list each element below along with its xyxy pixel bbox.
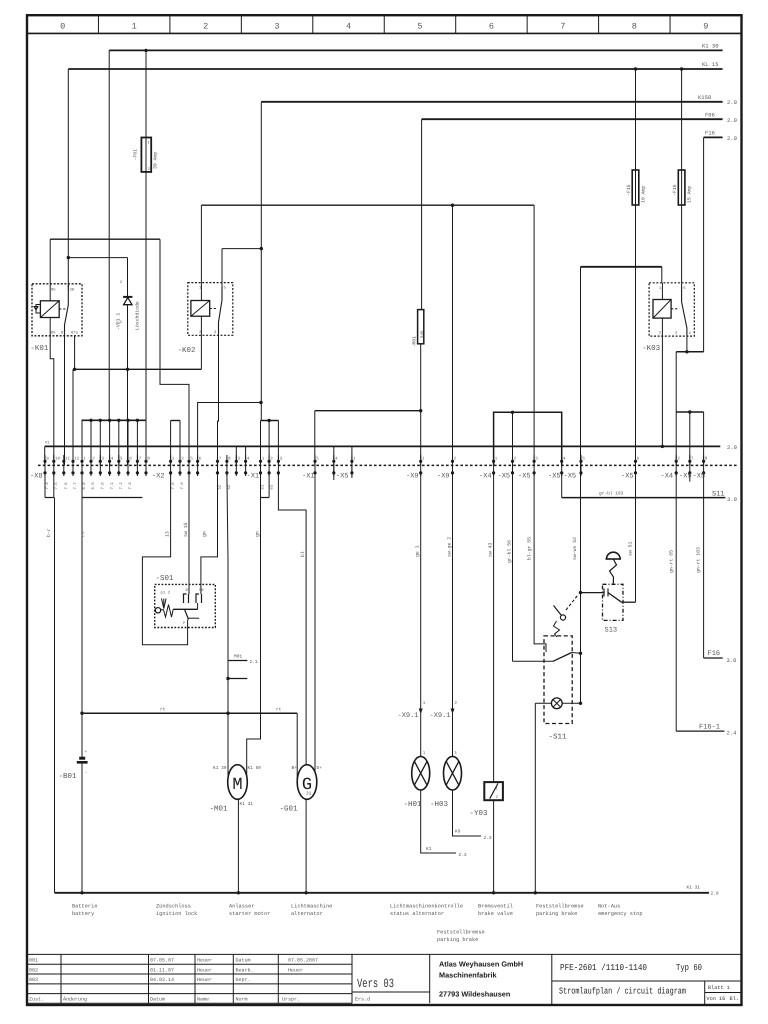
svg-text:52: 52 xyxy=(227,484,232,489)
svg-text:brake valve: brake valve xyxy=(478,911,513,917)
svg-text:-X1: -X1 xyxy=(302,473,315,481)
svg-text:2: 2 xyxy=(270,457,273,462)
svg-text:Maschinenfabrik: Maschinenfabrik xyxy=(439,971,498,980)
svg-text:gn: gn xyxy=(256,531,261,537)
svg-text:001: 001 xyxy=(29,958,38,964)
svg-text:P: P xyxy=(183,621,186,626)
svg-text:Löschdiode: Löschdiode xyxy=(135,301,141,330)
svg-text:-R01: -R01 xyxy=(412,336,418,348)
svg-text:K1 30: K1 30 xyxy=(702,43,719,50)
svg-text:4: 4 xyxy=(247,457,250,462)
svg-text:K0: K0 xyxy=(455,829,461,835)
svg-text:545: 545 xyxy=(420,330,425,338)
svg-text:V1: V1 xyxy=(45,441,50,446)
svg-text:starter motor: starter motor xyxy=(229,911,270,917)
svg-text:2.3: 2.3 xyxy=(459,852,467,858)
svg-text:Urspr.: Urspr. xyxy=(282,997,300,1003)
svg-text:Datum: Datum xyxy=(236,958,251,964)
svg-text:Ers.d: Ers.d xyxy=(355,997,370,1003)
svg-text:-X8: -X8 xyxy=(30,473,43,481)
svg-text:1: 1 xyxy=(262,457,265,462)
svg-text:3.0: 3.0 xyxy=(727,657,737,664)
svg-text:7.4: 7.4 xyxy=(45,482,50,490)
svg-text:Stromlaufplan / circuit diagra: Stromlaufplan / circuit diagram xyxy=(559,987,686,997)
svg-text:6: 6 xyxy=(637,457,640,462)
svg-text:86: 86 xyxy=(51,288,56,293)
svg-text:01.11.07: 01.11.07 xyxy=(150,967,174,973)
svg-text:5: 5 xyxy=(417,22,422,32)
svg-text:ge 1: ge 1 xyxy=(415,545,421,557)
svg-text:F16-1: F16-1 xyxy=(699,724,720,732)
svg-text:52: 52 xyxy=(218,484,223,489)
svg-text:2: 2 xyxy=(677,457,680,462)
svg-text:Bl.: Bl. xyxy=(730,996,739,1002)
svg-text:1: 1 xyxy=(423,701,426,706)
svg-text:Gepr.: Gepr. xyxy=(236,977,251,983)
svg-text:Datum: Datum xyxy=(150,997,165,1003)
svg-text:F06: F06 xyxy=(705,112,715,119)
svg-text:Zust.: Zust. xyxy=(29,997,44,1003)
svg-text:07.05.07: 07.05.07 xyxy=(150,958,174,964)
svg-text:3: 3 xyxy=(280,457,283,462)
svg-text:Heuer: Heuer xyxy=(197,967,212,973)
svg-text:5: 5 xyxy=(316,457,319,462)
svg-text:parking brake: parking brake xyxy=(536,911,577,917)
svg-text:5: 5 xyxy=(683,286,686,291)
svg-text:2.0: 2.0 xyxy=(727,117,737,124)
svg-text:-H01: -H01 xyxy=(404,800,423,809)
svg-text:K1 31: K1 31 xyxy=(687,885,701,891)
svg-text:9: 9 xyxy=(703,22,708,32)
svg-text:-K02: -K02 xyxy=(178,346,196,355)
svg-text:-Y03: -Y03 xyxy=(470,809,489,818)
svg-text:-B01: -B01 xyxy=(59,772,78,781)
svg-text:-S11: -S11 xyxy=(549,733,568,742)
svg-text:2.8: 2.8 xyxy=(711,891,719,897)
svg-text:2: 2 xyxy=(514,457,517,462)
svg-text:7: 7 xyxy=(219,457,222,462)
svg-text:Feststellbremse: Feststellbremse xyxy=(536,904,584,910)
svg-text:Atlas Weyhausen GmbH: Atlas Weyhausen GmbH xyxy=(439,960,523,969)
svg-text:Blatt 1: Blatt 1 xyxy=(708,985,730,991)
svg-text:Lichtmaschinenkontrolle: Lichtmaschinenkontrolle xyxy=(390,904,463,910)
svg-text:8: 8 xyxy=(632,22,637,32)
svg-text:002: 002 xyxy=(29,967,38,973)
svg-text:15: 15 xyxy=(185,588,190,593)
svg-text:-X5: -X5 xyxy=(498,473,511,481)
svg-text:Norm: Norm xyxy=(236,997,248,1003)
svg-text:sw 43: sw 43 xyxy=(488,542,494,557)
svg-text:-X5: -X5 xyxy=(621,473,634,481)
svg-text:gn: gn xyxy=(203,531,208,537)
svg-text:2.0: 2.0 xyxy=(727,99,737,106)
svg-text:7: 7 xyxy=(560,22,565,32)
svg-text:Heuer: Heuer xyxy=(288,967,303,973)
svg-text:battery: battery xyxy=(72,911,94,917)
svg-text:gr-bl 56: gr-bl 56 xyxy=(507,540,513,563)
svg-text:12: 12 xyxy=(74,457,80,462)
svg-text:-X5: -X5 xyxy=(693,473,706,481)
svg-text:3: 3 xyxy=(238,457,241,462)
svg-text:Name: Name xyxy=(197,997,209,1003)
svg-text:Bearb.: Bearb. xyxy=(236,967,254,973)
svg-text:parking brake: parking brake xyxy=(437,937,478,943)
svg-text:1: 1 xyxy=(83,457,86,462)
svg-text:7.9: 7.9 xyxy=(180,482,185,490)
svg-text:M01: M01 xyxy=(234,654,242,660)
svg-text:1: 1 xyxy=(423,751,426,756)
svg-text:31: 31 xyxy=(306,791,312,797)
svg-text:Anlasser: Anlasser xyxy=(229,904,254,910)
svg-text:1: 1 xyxy=(148,141,151,146)
svg-text:-X5: -X5 xyxy=(336,473,349,481)
svg-text:7.0: 7.0 xyxy=(171,482,176,490)
svg-text:2: 2 xyxy=(181,457,184,462)
svg-text:KL 15: KL 15 xyxy=(702,61,719,68)
svg-text:1: 1 xyxy=(659,286,662,291)
svg-text:1: 1 xyxy=(353,457,356,462)
svg-text:e2: e2 xyxy=(269,484,274,489)
svg-text:7.7: 7.7 xyxy=(73,482,78,490)
svg-text:-S01: -S01 xyxy=(156,574,175,583)
svg-text:Batterie: Batterie xyxy=(72,904,97,910)
svg-text:3: 3 xyxy=(214,330,217,335)
svg-text:4: 4 xyxy=(111,457,114,462)
svg-text:003: 003 xyxy=(29,977,38,983)
svg-text:1: 1 xyxy=(422,457,425,462)
svg-text:2.0: 2.0 xyxy=(727,135,737,142)
svg-text:5: 5 xyxy=(120,457,123,462)
svg-text:-X5: -X5 xyxy=(564,473,577,481)
svg-text:5: 5 xyxy=(224,286,227,291)
svg-text:3: 3 xyxy=(535,457,538,462)
svg-text:2.4: 2.4 xyxy=(727,730,738,737)
svg-text:2.1: 2.1 xyxy=(250,659,258,665)
svg-text:Lichtmaschine: Lichtmaschine xyxy=(291,904,332,910)
svg-text:3: 3 xyxy=(102,457,105,462)
svg-text:PFE-2601 /1110-1140: PFE-2601 /1110-1140 xyxy=(560,963,647,973)
svg-text:3.0: 3.0 xyxy=(727,496,737,503)
svg-text:30: 30 xyxy=(70,288,75,293)
svg-text:p1 2: p1 2 xyxy=(161,591,171,596)
svg-text:2: 2 xyxy=(92,457,95,462)
svg-text:-K03: -K03 xyxy=(642,344,661,353)
svg-text:0: 0 xyxy=(60,22,65,32)
svg-text:S13: S13 xyxy=(605,627,618,635)
svg-text:Zündschloss: Zündschloss xyxy=(156,904,191,910)
svg-text:alternator: alternator xyxy=(291,911,323,917)
svg-text:-F15: -F15 xyxy=(626,184,632,196)
svg-text:-X4: -X4 xyxy=(661,473,674,481)
svg-text:50: 50 xyxy=(199,588,204,593)
svg-text:K1 31: K1 31 xyxy=(240,801,254,807)
svg-text:-: - xyxy=(85,771,88,776)
svg-text:gn-rt 65: gn-rt 65 xyxy=(669,550,675,573)
svg-text:rt: rt xyxy=(160,708,166,713)
svg-text:-G01: -G01 xyxy=(280,805,299,814)
svg-text:-F16: -F16 xyxy=(672,184,678,196)
svg-text:-F01: -F01 xyxy=(133,149,139,161)
svg-text:sw 15: sw 15 xyxy=(183,522,189,537)
svg-text:b-r: b-r xyxy=(46,528,52,537)
svg-text:bl-gr 55: bl-gr 55 xyxy=(527,537,533,560)
svg-text:1: 1 xyxy=(455,751,458,756)
svg-text:7.1: 7.1 xyxy=(110,482,115,490)
svg-text:6: 6 xyxy=(199,457,202,462)
svg-text:87a: 87a xyxy=(71,331,79,336)
svg-text:-X9: -X9 xyxy=(406,473,419,481)
svg-text:gn-rt 103: gn-rt 103 xyxy=(696,547,702,573)
svg-text:Bremsventil: Bremsventil xyxy=(478,904,513,910)
svg-text:8: 8 xyxy=(228,457,231,462)
svg-text:-H03: -H03 xyxy=(430,800,449,809)
svg-text:87: 87 xyxy=(61,331,66,336)
svg-text:1: 1 xyxy=(496,787,499,792)
svg-text:K1 30: K1 30 xyxy=(213,765,227,771)
svg-text:-X9: -X9 xyxy=(437,473,450,481)
svg-text:7.0: 7.0 xyxy=(101,482,106,490)
svg-text:ignition lock: ignition lock xyxy=(156,911,197,917)
svg-text:11: 11 xyxy=(65,457,71,462)
svg-text:Heuer: Heuer xyxy=(197,958,212,964)
svg-text:7: 7 xyxy=(139,457,142,462)
svg-text:30 Amp: 30 Amp xyxy=(153,152,159,169)
svg-text:07.05.2007: 07.05.2007 xyxy=(288,958,318,964)
svg-text:85: 85 xyxy=(51,331,56,336)
svg-text:5: 5 xyxy=(190,457,193,462)
svg-text:1: 1 xyxy=(132,22,137,32)
svg-text:B+: B+ xyxy=(292,766,298,771)
svg-text:8: 8 xyxy=(147,457,150,462)
svg-text:7.5: 7.5 xyxy=(54,482,59,490)
svg-text:3: 3 xyxy=(675,331,678,336)
svg-text:-X1: -X1 xyxy=(247,473,260,481)
svg-text:emergency stop: emergency stop xyxy=(598,911,643,917)
svg-text:2.0: 2.0 xyxy=(727,444,737,451)
svg-text:Not-Aus: Not-Aus xyxy=(598,904,620,910)
svg-text:2.3: 2.3 xyxy=(484,835,492,841)
svg-text:-X4: -X4 xyxy=(479,473,492,481)
svg-text:9: 9 xyxy=(46,457,49,462)
svg-text:4: 4 xyxy=(346,22,351,32)
svg-text:rt: rt xyxy=(276,708,282,713)
svg-text:+: + xyxy=(85,750,88,755)
svg-text:6.8: 6.8 xyxy=(82,482,87,490)
svg-text:sw-ge 2: sw-ge 2 xyxy=(447,537,453,557)
svg-text:Typ 60: Typ 60 xyxy=(676,963,702,973)
svg-text:7.2: 7.2 xyxy=(119,482,124,490)
svg-text:6.9: 6.9 xyxy=(91,482,96,490)
svg-text:gr-bl 103: gr-bl 103 xyxy=(599,491,624,497)
svg-text:D+: D+ xyxy=(317,766,323,771)
svg-text:6: 6 xyxy=(129,457,132,462)
svg-text:S11: S11 xyxy=(712,491,725,499)
svg-text:1: 1 xyxy=(495,457,498,462)
svg-text:04.03.14: 04.03.14 xyxy=(150,977,174,983)
svg-text:-X5: -X5 xyxy=(548,473,561,481)
svg-text:sw 51: sw 51 xyxy=(628,541,634,556)
svg-text:10: 10 xyxy=(55,457,61,462)
svg-text:15 Amp: 15 Amp xyxy=(687,186,693,203)
svg-text:-X5: -X5 xyxy=(679,473,692,481)
svg-text:rt: rt xyxy=(80,531,86,537)
svg-text:Änderung: Änderung xyxy=(63,997,87,1003)
svg-text:-X2: -X2 xyxy=(152,473,165,481)
svg-text:e1: e1 xyxy=(261,484,266,489)
svg-text:-K01: -K01 xyxy=(30,344,49,353)
svg-text:4: 4 xyxy=(563,457,566,462)
svg-text:sw-ws 52: sw-ws 52 xyxy=(572,537,578,560)
svg-text:F16: F16 xyxy=(708,650,721,658)
svg-text:6: 6 xyxy=(489,22,494,32)
svg-text:Vers 03: Vers 03 xyxy=(357,977,394,991)
svg-text:3: 3 xyxy=(275,22,280,32)
svg-text:1: 1 xyxy=(172,457,175,462)
svg-text:-X5: -X5 xyxy=(518,473,531,481)
svg-text:7.3: 7.3 xyxy=(128,482,133,490)
svg-text:10 Amp: 10 Amp xyxy=(641,186,647,203)
svg-text:K150: K150 xyxy=(698,94,711,101)
svg-text:-VD1 1: -VD1 1 xyxy=(116,313,122,330)
svg-text:K1: K1 xyxy=(426,847,432,852)
svg-text:bl: bl xyxy=(300,551,306,557)
svg-text:Feststellbremse: Feststellbremse xyxy=(437,930,485,936)
svg-text:2: 2 xyxy=(455,701,458,706)
svg-text:M: M xyxy=(232,776,242,795)
svg-text:5: 5 xyxy=(582,457,585,462)
svg-text:-X9.1: -X9.1 xyxy=(430,712,451,720)
svg-text:4: 4 xyxy=(689,331,692,336)
svg-text:-X9.1: -X9.1 xyxy=(398,712,419,720)
svg-text:2: 2 xyxy=(454,457,457,462)
svg-text:8: 8 xyxy=(705,457,708,462)
svg-text:K1 50: K1 50 xyxy=(248,765,262,771)
svg-text:4: 4 xyxy=(335,457,338,462)
svg-text:13: 13 xyxy=(165,531,171,537)
svg-text:2: 2 xyxy=(120,280,123,285)
svg-text:F16: F16 xyxy=(705,130,715,137)
svg-text:2: 2 xyxy=(659,331,662,336)
svg-text:Von 16: Von 16 xyxy=(707,996,726,1002)
svg-text:7: 7 xyxy=(691,457,694,462)
svg-text:7.6: 7.6 xyxy=(64,482,69,490)
svg-text:Heuer: Heuer xyxy=(197,977,212,983)
svg-text:status alternator: status alternator xyxy=(390,911,444,917)
svg-text:2: 2 xyxy=(203,22,208,32)
svg-text:27793 Wildeshausen: 27793 Wildeshausen xyxy=(439,990,510,999)
svg-text:-M01: -M01 xyxy=(210,805,229,814)
